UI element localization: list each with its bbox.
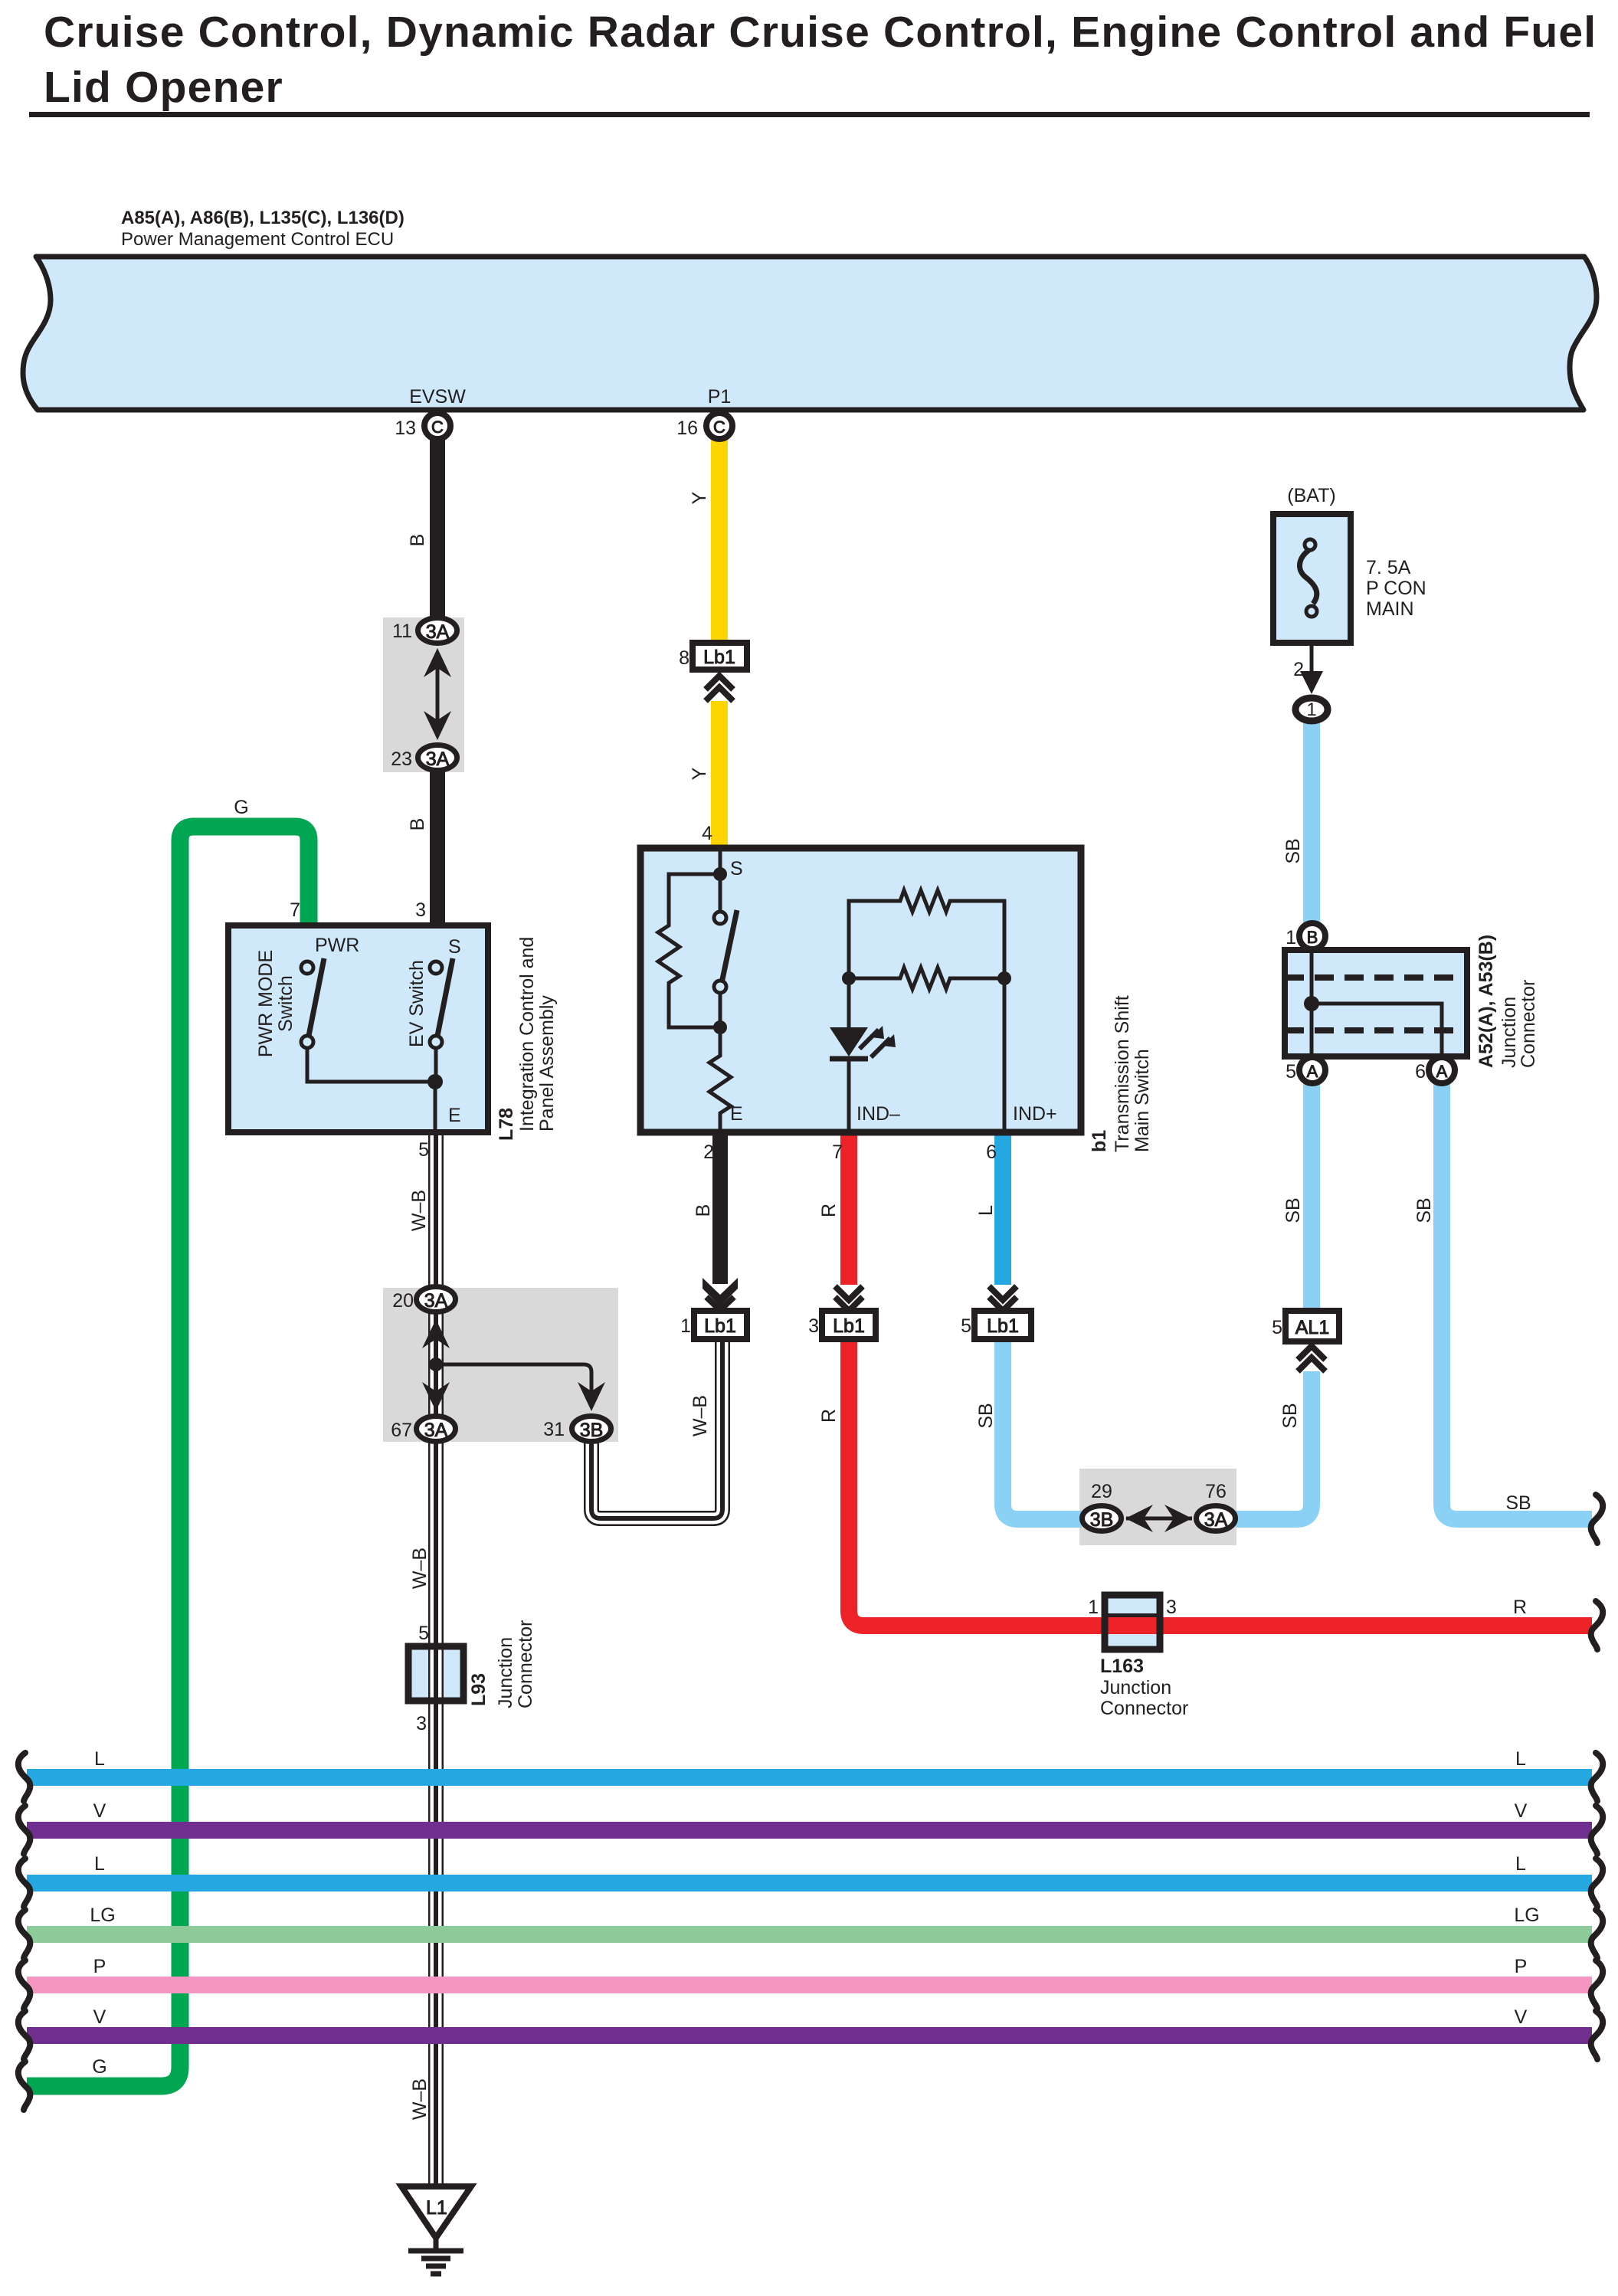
transmission shift main switch b1 box <box>640 848 1081 1132</box>
svg-text:5: 5 <box>1286 1061 1296 1082</box>
svg-text:11: 11 <box>392 621 412 642</box>
chevrons into 3 Lb1 <box>835 1286 863 1311</box>
svg-text:3: 3 <box>1166 1597 1177 1618</box>
title underline <box>29 112 1590 117</box>
break squiggle right V row2 <box>1591 1806 1603 1854</box>
svg-text:5: 5 <box>1272 1317 1282 1338</box>
svg-text:3A: 3A <box>424 1290 448 1312</box>
svg-text:SB: SB <box>1413 1197 1435 1223</box>
LED light arrow 1 <box>860 1030 879 1049</box>
wire SB from A52 pin 5 to 5 AL1 <box>1303 1083 1320 1312</box>
svg-text:L1: L1 <box>426 2197 447 2219</box>
arrow down between 3A ovals <box>424 711 451 740</box>
LED D1 triangle <box>830 1027 868 1056</box>
branch line to 31 3B <box>436 1364 591 1393</box>
PWR MODE switch upper contact <box>301 961 313 974</box>
junction node E in L78 <box>427 1074 443 1089</box>
LED light arrow 2 head <box>883 1034 896 1047</box>
svg-text:P CON: P CON <box>1366 578 1426 599</box>
svg-text:IND–: IND– <box>856 1103 900 1125</box>
svg-text:P: P <box>1515 1956 1528 1977</box>
oval connector 29 3B <box>1082 1506 1122 1531</box>
arrow into oval 1 <box>1300 671 1323 694</box>
ECU pin 13 circle C <box>424 413 450 439</box>
svg-text:3: 3 <box>808 1315 819 1337</box>
junction connector L93 fill <box>408 1646 463 1701</box>
svg-text:1: 1 <box>1286 927 1296 948</box>
bottom wire V row 6 <box>27 2027 1592 2044</box>
chevrons up below 5 AL1 <box>1298 1346 1325 1371</box>
svg-text:Transmission Shift: Transmission Shift <box>1112 995 1133 1152</box>
svg-text:3B: 3B <box>580 1420 604 1441</box>
svg-text:EVSW: EVSW <box>409 386 466 408</box>
svg-text:L: L <box>94 1853 105 1875</box>
wire W-B black stripe <box>434 1132 438 2188</box>
PWR MODE switch lower contact <box>301 1036 313 1048</box>
chevron into 1 Lb1 <box>706 1297 734 1310</box>
switch S lower contact <box>714 981 726 993</box>
svg-text:L: L <box>1515 1748 1526 1770</box>
svg-text:7: 7 <box>290 899 300 921</box>
svg-text:5: 5 <box>418 1623 429 1644</box>
svg-text:SB: SB <box>1279 1403 1301 1428</box>
svg-text:R: R <box>818 1204 840 1217</box>
bottom wire LG row 4 <box>27 1926 1592 1943</box>
svg-text:3A: 3A <box>426 621 450 643</box>
arrow left into 29 3B <box>1125 1505 1153 1532</box>
svg-text:B: B <box>407 534 428 547</box>
svg-text:AL1: AL1 <box>1295 1317 1329 1338</box>
svg-text:SB: SB <box>1505 1492 1531 1514</box>
svg-text:20: 20 <box>392 1290 414 1312</box>
svg-text:Connector: Connector <box>515 1620 536 1708</box>
svg-text:3: 3 <box>416 1713 427 1734</box>
svg-text:5: 5 <box>961 1315 971 1337</box>
oval connector 76 3A <box>1197 1506 1236 1531</box>
fuse box P CON MAIN <box>1273 514 1351 643</box>
svg-text:V: V <box>93 1800 106 1822</box>
wire W-B U route white core <box>591 1338 722 1518</box>
svg-text:8: 8 <box>679 647 689 669</box>
oval connector 20 3A <box>417 1287 456 1312</box>
break squiggle right R <box>1591 1601 1603 1649</box>
junction connector L163 border <box>1105 1595 1160 1649</box>
shield grey box around 20/67/31 connectors <box>383 1288 618 1442</box>
svg-text:4: 4 <box>702 823 712 844</box>
svg-text:Panel Assembly: Panel Assembly <box>536 995 558 1132</box>
oval connector 11 3A <box>418 618 457 644</box>
svg-text:Y: Y <box>689 767 710 780</box>
junction connector A52 A53 box <box>1285 950 1467 1056</box>
wire W-B from L78 pin 5 to ground L1 (outer) <box>428 1132 444 2188</box>
wire node S to switch <box>719 874 722 912</box>
break squiggle left V row2 <box>18 1806 31 1854</box>
A52 dashed bus lower <box>1285 1027 1467 1033</box>
svg-text:L78: L78 <box>496 1108 517 1141</box>
bottom wire P row 5 <box>27 1977 1592 1993</box>
svg-text:3A: 3A <box>1204 1509 1228 1531</box>
wire L from b1 pin 6 to 5 Lb1 <box>994 1132 1011 1285</box>
svg-text:PWR MODE: PWR MODE <box>255 950 277 1057</box>
junction connector L163 fill <box>1105 1595 1160 1649</box>
link line between 3A ovals <box>436 667 440 724</box>
svg-text:V: V <box>93 2006 106 2028</box>
svg-text:S: S <box>448 936 461 958</box>
svg-text:Switch: Switch <box>275 975 296 1032</box>
switch S blade <box>722 910 737 983</box>
svg-text:b1: b1 <box>1089 1130 1110 1152</box>
EV switch upper contact <box>430 961 442 974</box>
svg-text:Lb1: Lb1 <box>987 1315 1019 1337</box>
ground bar 4 <box>431 2271 441 2277</box>
IND- node dot <box>842 971 856 985</box>
wire SB from 5 AL1 to 76 3A <box>1236 1371 1312 1519</box>
connector box 3 Lb1 <box>822 1311 876 1339</box>
svg-text:Lb1: Lb1 <box>833 1315 865 1337</box>
break squiggle right SB <box>1591 1495 1603 1543</box>
oval terminal 1 <box>1295 698 1328 721</box>
shield grey box around 11/23 3A connectors <box>383 617 464 772</box>
switch S upper contact <box>714 912 726 924</box>
wire from EV switch to junction <box>434 1048 438 1082</box>
break squiggle right L row1 <box>1591 1753 1603 1801</box>
connector box 1 Lb1 <box>694 1311 747 1339</box>
fuse element curve <box>1299 549 1316 604</box>
junction connector L93 border <box>408 1646 463 1701</box>
junction connector L93 divider <box>434 1646 438 1701</box>
wire SB from A53 pin 6 to right edge <box>1442 1083 1592 1519</box>
oval connector 67 3A <box>417 1417 456 1442</box>
svg-text:B: B <box>693 1204 714 1217</box>
svg-text:E: E <box>730 1103 743 1125</box>
wire IND- node to LED <box>847 978 851 1027</box>
lead from fuse to arrow <box>1310 643 1314 674</box>
ground bar 3 <box>426 2264 446 2269</box>
break squiggle left G row7 <box>18 2062 31 2110</box>
svg-text:W–B: W–B <box>409 2078 431 2120</box>
bottom wire L row 3 <box>27 1875 1592 1891</box>
wire from junction to L78 pin E <box>434 1082 437 1132</box>
svg-text:C: C <box>713 418 725 437</box>
break squiggle right P row5 <box>1591 1960 1603 2009</box>
wire R from 3 Lb1 through L163 to right edge <box>849 1338 1592 1626</box>
svg-text:L: L <box>975 1205 997 1216</box>
svg-text:1: 1 <box>1306 699 1316 720</box>
chevrons into 5 Lb1 <box>989 1286 1017 1311</box>
svg-text:E: E <box>448 1105 461 1126</box>
resistor R3 between IND nodes <box>849 968 1004 989</box>
bottom wire L row 1 <box>27 1769 1592 1786</box>
svg-text:3A: 3A <box>426 748 450 770</box>
arrow down above 31 3B <box>578 1382 605 1411</box>
break squiggle left L row1 <box>18 1753 31 1801</box>
svg-text:Integration Control and: Integration Control and <box>516 937 538 1132</box>
break squiggle left L row3 <box>18 1859 31 1907</box>
svg-text:Junction: Junction <box>495 1637 516 1708</box>
svg-text:EV Switch: EV Switch <box>406 960 427 1047</box>
wire G from bottom row to L78 pin 7 <box>27 827 309 2086</box>
svg-text:(BAT): (BAT) <box>1287 485 1335 506</box>
connector box 5 Lb1 <box>974 1311 1031 1339</box>
svg-text:Main Switch: Main Switch <box>1132 1049 1153 1152</box>
svg-text:Connector: Connector <box>1518 980 1539 1068</box>
arrow up between 3A ovals <box>424 648 451 677</box>
arrow down above 67 3A <box>422 1382 450 1411</box>
svg-text:L93: L93 <box>468 1673 490 1706</box>
wire IND+ node to pin 6 <box>1003 978 1007 1132</box>
svg-text:V: V <box>1515 1800 1528 1822</box>
PWR MODE switch blade <box>309 958 324 1036</box>
svg-text:G: G <box>92 2056 106 2078</box>
svg-text:IND+: IND+ <box>1013 1103 1057 1125</box>
oval connector 31 3B <box>572 1417 611 1442</box>
svg-text:Lid Opener: Lid Opener <box>44 63 283 112</box>
junction connector L163 divider <box>1105 1613 1160 1618</box>
svg-text:23: 23 <box>391 748 412 770</box>
svg-text:C: C <box>431 418 444 437</box>
Power Management Control ECU band <box>23 257 1597 410</box>
svg-text:Junction: Junction <box>1498 997 1520 1068</box>
wire W-B from 31 3B to 1 Lb1 (outer) <box>591 1338 722 1518</box>
svg-text:7: 7 <box>832 1141 843 1163</box>
ground L1 triangle <box>401 2186 471 2238</box>
wire R from b1 pin 7 to 3 Lb1 <box>840 1132 857 1285</box>
wire Y from ECU P1 pin 16 to 8 Lb1 <box>711 440 728 643</box>
EV switch blade <box>437 958 453 1036</box>
svg-text:67: 67 <box>391 1420 412 1441</box>
wire B from b1 pin 2 to arrow at 1 Lb1 <box>712 1132 728 1284</box>
EV switch lower contact <box>430 1036 442 1048</box>
svg-text:B: B <box>407 818 428 831</box>
node S junction dot <box>713 867 727 881</box>
link line 20 3A to 67 3A <box>434 1338 438 1396</box>
svg-text:6: 6 <box>1415 1061 1426 1082</box>
wire from PWR MODE switch to junction <box>307 1048 435 1082</box>
svg-text:G: G <box>234 797 248 818</box>
svg-text:P: P <box>93 1956 106 1977</box>
ground bar 1 <box>408 2249 463 2254</box>
svg-text:3A: 3A <box>424 1420 448 1441</box>
svg-text:W–B: W–B <box>689 1395 711 1436</box>
svg-text:5: 5 <box>418 1139 429 1161</box>
svg-text:R: R <box>818 1409 840 1423</box>
wire switch to lower junction <box>719 993 722 1027</box>
svg-text:3: 3 <box>415 899 426 921</box>
A52 internal junction dot <box>1304 996 1319 1011</box>
svg-text:13: 13 <box>395 418 416 439</box>
svg-text:Connector: Connector <box>1100 1698 1188 1719</box>
svg-text:6: 6 <box>986 1141 997 1163</box>
connector box 8 Lb1 <box>693 643 747 670</box>
svg-text:1: 1 <box>680 1315 691 1337</box>
wire Y from 8 Lb1 to b1 pin 4 <box>711 701 728 849</box>
bottom wire V row 2 <box>27 1822 1592 1839</box>
junction dot on shield link <box>429 1358 443 1371</box>
svg-text:Power Management Control ECU: Power Management Control ECU <box>121 229 394 250</box>
integration control panel L78 box <box>228 925 488 1132</box>
break squiggle right LG row4 <box>1591 1910 1603 1958</box>
A53 pin 6 circle A <box>1429 1057 1455 1083</box>
wire B from ECU EVSW pin 13 to 11 3A <box>430 440 445 630</box>
svg-text:Cruise Control, Dynamic Radar: Cruise Control, Dynamic Radar Cruise Con… <box>44 8 1597 57</box>
wire LED to pin 7 <box>847 1059 851 1132</box>
LED light arrow 1 head <box>871 1026 884 1039</box>
svg-text:W–B: W–B <box>408 1190 430 1231</box>
resistor R2 to pin E of b1 <box>709 1027 731 1132</box>
svg-text:A: A <box>1307 1062 1318 1081</box>
svg-text:2: 2 <box>1293 659 1304 680</box>
connector box 5 AL1 <box>1286 1311 1339 1341</box>
svg-text:Lb1: Lb1 <box>704 1315 736 1337</box>
A52 pin 5 circle A <box>1299 1057 1325 1083</box>
fuse bottom terminal <box>1306 606 1317 617</box>
A52 pin 1 circle B <box>1299 923 1325 949</box>
svg-text:Lb1: Lb1 <box>703 647 735 668</box>
svg-text:SB: SB <box>1282 838 1304 863</box>
wire SB from P CON MAIN fuse to A52 pin 1 <box>1303 723 1320 925</box>
svg-text:S: S <box>730 858 743 879</box>
shield grey box around 29/76 connectors <box>1079 1469 1236 1545</box>
solid arrow into 1 Lb1 <box>703 1278 738 1306</box>
A52 dashed bus upper <box>1285 974 1467 981</box>
A52 internal wire from pin 1 to pin 5 <box>1310 950 1314 1056</box>
arrow up below 20 3A <box>422 1319 450 1348</box>
svg-text:29: 29 <box>1091 1481 1112 1502</box>
svg-text:L: L <box>1515 1853 1526 1875</box>
svg-text:L: L <box>94 1748 105 1770</box>
svg-text:LG: LG <box>90 1905 115 1926</box>
arrow right into 76 3A <box>1164 1505 1192 1532</box>
svg-text:P1: P1 <box>708 386 732 408</box>
svg-text:31: 31 <box>543 1419 565 1440</box>
svg-text:3B: 3B <box>1090 1509 1114 1531</box>
svg-text:16: 16 <box>676 418 698 439</box>
ground stem <box>434 2238 439 2251</box>
svg-text:PWR: PWR <box>315 935 359 956</box>
break squiggle right V row6 <box>1591 2011 1603 2059</box>
svg-text:R: R <box>1513 1597 1527 1618</box>
break squiggle right L row3 <box>1591 1859 1603 1907</box>
svg-text:SB: SB <box>1282 1197 1304 1223</box>
svg-text:A85(A), A86(B), L135(C), L136(: A85(A), A86(B), L135(C), L136(D) <box>121 208 404 228</box>
ECU pin 16 circle C <box>706 413 732 439</box>
svg-text:2: 2 <box>703 1141 714 1163</box>
link line between 29 3B and 76 3A <box>1126 1517 1192 1521</box>
LED D1 cathode bar <box>830 1056 868 1062</box>
svg-text:76: 76 <box>1205 1481 1227 1502</box>
svg-text:B: B <box>1307 928 1318 947</box>
fuse top terminal <box>1305 539 1315 550</box>
svg-text:W–B: W–B <box>409 1548 431 1589</box>
wire W-B U route black stripe <box>591 1338 722 1518</box>
chevrons up below 8 Lb1 <box>706 676 733 701</box>
break squiggle left LG row4 <box>18 1910 31 1958</box>
svg-text:1: 1 <box>1088 1597 1099 1618</box>
svg-text:L163: L163 <box>1100 1656 1144 1677</box>
ground bar 2 <box>421 2256 450 2262</box>
svg-text:A: A <box>1436 1062 1448 1081</box>
oval connector 23 3A <box>418 745 457 771</box>
wire W-B white core <box>431 1132 442 2188</box>
IND+ node dot <box>997 971 1011 985</box>
svg-text:LG: LG <box>1514 1905 1539 1926</box>
wire SB from 5 Lb1 to 29 3B <box>1003 1338 1082 1519</box>
svg-text:V: V <box>1515 2006 1528 2028</box>
break squiggle left V row6 <box>18 2011 31 2059</box>
top line of LED bridge <box>849 890 1004 978</box>
lower junction dot in b1 <box>713 1020 727 1034</box>
svg-text:A52(A), A53(B): A52(A), A53(B) <box>1476 935 1497 1068</box>
A52 internal wire from junction to pin 6 <box>1312 1004 1442 1056</box>
svg-text:MAIN: MAIN <box>1366 598 1414 620</box>
svg-text:Junction: Junction <box>1100 1677 1171 1698</box>
lead from b1 pin 4 to node S <box>719 848 722 874</box>
break squiggle left P row5 <box>18 1960 31 2009</box>
svg-text:Y: Y <box>689 491 710 504</box>
svg-text:SB: SB <box>975 1403 997 1428</box>
wire B from 23 3A to L78 pin 3 <box>430 758 445 926</box>
svg-text:7. 5A: 7. 5A <box>1366 557 1411 578</box>
resistor R1 left branch of b1 <box>658 874 720 1027</box>
LED light arrow 2 <box>871 1038 890 1057</box>
